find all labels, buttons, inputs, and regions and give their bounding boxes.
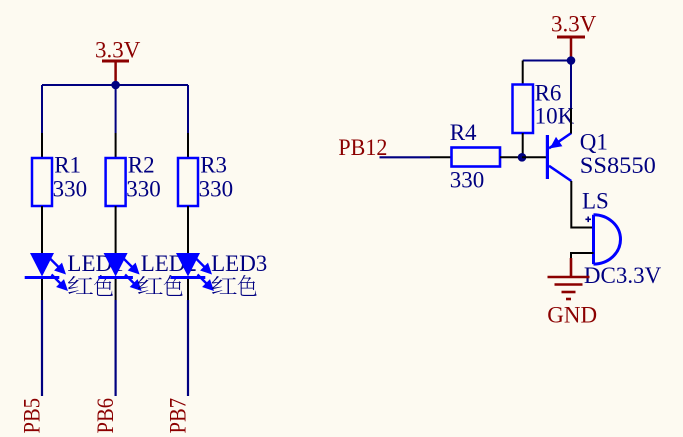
svg-text:GND: GND [547,303,597,328]
svg-text:R6: R6 [535,80,562,105]
resistor R1 body [32,158,52,206]
transistor Q1 collector line [549,166,571,181]
wire PB12 to R4 [380,156,431,158]
svg-text:330: 330 [450,167,485,192]
resistor R3 body [178,158,198,206]
pin top of R2 [115,133,117,158]
wire LED3 to net PB7 [187,300,189,396]
svg-text:R1: R1 [54,153,81,178]
LED LED1 symbol [25,253,68,291]
wire 3.3V junction to Q1 emitter [570,61,572,109]
svg-text:PB12: PB12 [338,135,387,160]
svg-text:330: 330 [199,177,234,202]
wire top rail [42,84,188,86]
wire base node to Q1 base pin [522,156,546,158]
resistor R4 body [452,148,501,167]
speaker LS body [594,215,621,264]
pin bottom of LED2 [115,279,117,300]
junction dot on rail [111,81,120,90]
pin bottom of R3 / pin top of LED3 [187,206,189,253]
power port 3.3V (right) bar symbol [557,37,585,61]
wire LED2 to net PB6 [114,300,116,396]
pin bottom of R6 [522,133,524,157]
pin top of R6 [522,61,524,85]
LED LED3 symbol [171,253,214,291]
junction dot at 3.3V [567,56,576,65]
comment 红色 (red) of LED2 [138,275,183,296]
pin right of R4 [500,156,522,158]
svg-text:LS: LS [582,189,609,214]
svg-text:330: 330 [53,177,88,202]
pin left of R4 [430,156,451,158]
svg-text:10K: 10K [535,104,575,129]
power port GND symbol [548,258,590,299]
wire LED1 to net PB5 [41,300,43,396]
svg-text:R2: R2 [128,153,155,178]
pin top of R1 [41,133,43,158]
junction dot at base node [518,153,527,162]
pin bottom of LED1 [41,279,43,300]
pin bottom of LED3 [187,279,189,300]
transistor Q1 emitter line with PNP arrow [549,133,571,148]
svg-text:R4: R4 [450,120,477,145]
svg-text:PB7: PB7 [165,398,190,434]
svg-text:R3: R3 [200,153,227,178]
comment 红色 (red) of LED3 [212,275,257,296]
wire 3.3V rail to R6 branch [523,60,571,62]
pin bottom of R1 / pin top of LED1 [41,206,43,253]
wire from rail to R1 [41,85,43,133]
pin collector of Q1 / wire to speaker [571,181,593,228]
svg-text:Q1: Q1 [580,130,608,155]
svg-text:3.3V: 3.3V [95,38,141,63]
plus polarity mark of LS [585,217,591,223]
svg-text:3.3V: 3.3V [551,12,597,37]
svg-text:330: 330 [126,177,161,202]
svg-text:SS8550: SS8550 [580,153,656,178]
LED LED2 symbol [98,253,141,291]
wire from rail to R3 [187,85,189,133]
svg-text:DC3.3V: DC3.3V [584,263,662,288]
wire speaker bottom to GND [571,253,594,262]
power port 3.3V (left) bar symbol [102,61,129,85]
svg-text:PB6: PB6 [93,398,118,434]
resistor R6 body [513,85,534,134]
svg-text:LED3: LED3 [211,251,267,276]
comment 红色 (red) of LED1 [68,275,113,296]
wire from rail to R2 [115,85,117,133]
pin emitter of Q1 [570,109,572,134]
transistor Q1 base bar [546,135,549,179]
svg-text:PB5: PB5 [19,398,44,434]
pin top of R3 [187,133,189,158]
pin bottom of R2 / pin top of LED2 [115,206,117,253]
resistor R2 body [106,158,126,206]
